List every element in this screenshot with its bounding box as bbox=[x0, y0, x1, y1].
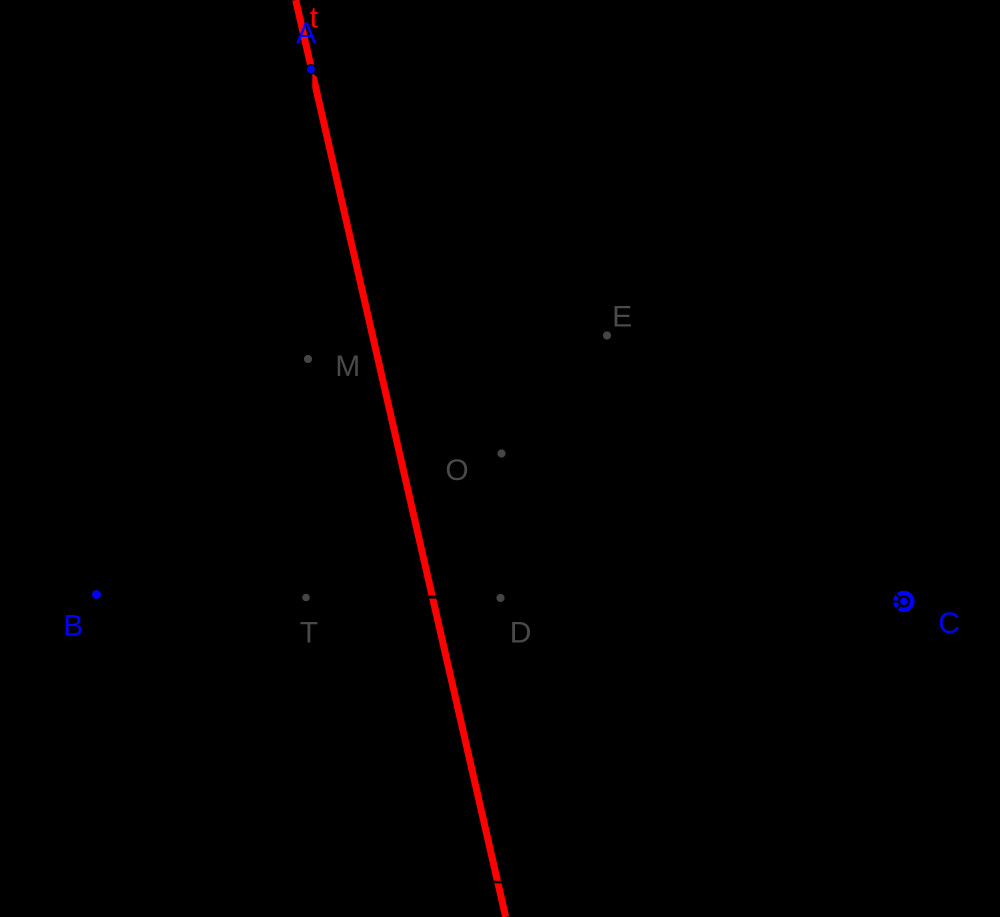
notch on C ring from hidden circumcircle bbox=[896, 606, 900, 610]
point T bbox=[302, 594, 310, 602]
segment AT altitude (black, hidden) bbox=[306, 69, 311, 597]
segment AC (black, hidden) bbox=[311, 69, 904, 601]
svg-text:O: O bbox=[445, 454, 468, 487]
point B bbox=[92, 590, 101, 599]
svg-text:B: B bbox=[63, 610, 83, 643]
svg-text:M: M bbox=[335, 350, 360, 383]
point E bbox=[603, 331, 611, 339]
svg-text:D: D bbox=[510, 617, 532, 650]
svg-text:C: C bbox=[938, 607, 960, 640]
segment AB (black, hidden) bbox=[97, 69, 311, 594]
svg-text:E: E bbox=[612, 301, 632, 334]
line t (red) bbox=[296, 0, 506, 917]
point O bbox=[497, 449, 505, 457]
ring around point C bbox=[896, 593, 913, 610]
point D bbox=[496, 594, 504, 602]
notch on C ring from hidden BC bbox=[893, 601, 899, 603]
notch on C ring from hidden AC bbox=[896, 594, 900, 598]
point M bbox=[304, 355, 312, 363]
point C bbox=[900, 597, 909, 606]
svg-text:T: T bbox=[300, 617, 318, 650]
point A bbox=[306, 65, 315, 74]
line BC (black, over line t) bbox=[0, 594, 1000, 602]
svg-text:t: t bbox=[310, 2, 319, 35]
